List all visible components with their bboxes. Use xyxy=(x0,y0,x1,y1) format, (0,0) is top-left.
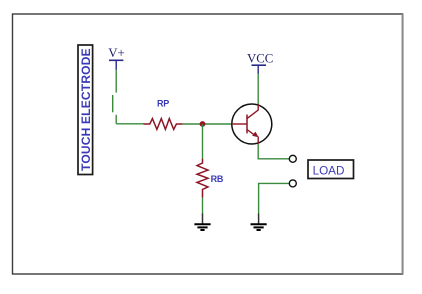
load label box xyxy=(308,160,354,179)
svg-text:RB: RB xyxy=(211,174,224,184)
svg-text:LOAD: LOAD xyxy=(313,165,345,178)
wire RB to ground xyxy=(202,198,204,215)
wire VCC to collector xyxy=(257,74,259,105)
wire RP to base xyxy=(183,123,232,125)
resistor RB xyxy=(197,159,208,198)
touch electrode label box xyxy=(78,45,93,175)
wire V+ stem xyxy=(115,70,117,93)
resistor RP xyxy=(144,119,183,130)
svg-text:TOUCH ELECTRODE: TOUCH ELECTRODE xyxy=(79,48,93,171)
svg-text:V+: V+ xyxy=(108,46,124,60)
ground GND2 xyxy=(251,214,267,231)
power port VCC xyxy=(247,51,273,74)
power port V+ xyxy=(108,46,124,70)
wire pin 2 to ground xyxy=(259,183,290,214)
transistor Q1 (NPN) xyxy=(232,104,272,144)
wire emitter to pin 1 xyxy=(258,144,289,159)
pin terminal P2 xyxy=(289,180,296,187)
ground GND1 xyxy=(194,214,210,231)
svg-text:RP: RP xyxy=(157,99,169,109)
wire junction to RB xyxy=(202,124,204,159)
pin terminal P1 xyxy=(289,155,296,162)
junction node (base/RB) xyxy=(200,121,206,127)
svg-text:VCC: VCC xyxy=(247,51,273,65)
wire gap to RP xyxy=(116,123,144,125)
touch electrode gap (probe contact) xyxy=(113,95,117,124)
